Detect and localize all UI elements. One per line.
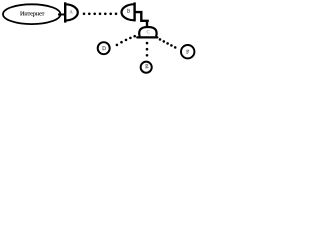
svg-text:D: D — [102, 46, 106, 52]
node B half-disc — [122, 2, 135, 21]
node F circle — [181, 45, 194, 58]
wire internet to A — [58, 14, 65, 16]
node A half-disc — [65, 2, 78, 22]
wire B to C staircase — [135, 12, 149, 21]
wire stub into C — [146, 21, 148, 28]
dotted wire C to F — [159, 38, 177, 49]
svg-text:Интернет: Интернет — [20, 11, 45, 17]
dotted wire C to D — [116, 35, 136, 46]
svg-text:A: A — [69, 11, 73, 16]
dotted wire C to E — [146, 42, 149, 57]
internet cloud ellipse — [3, 4, 60, 24]
node D circle — [98, 42, 110, 54]
dotted wire A to B — [83, 13, 118, 16]
svg-text:F: F — [186, 49, 189, 55]
node C dome — [137, 27, 157, 37]
svg-text:E: E — [145, 64, 148, 70]
node E circle — [141, 62, 152, 73]
